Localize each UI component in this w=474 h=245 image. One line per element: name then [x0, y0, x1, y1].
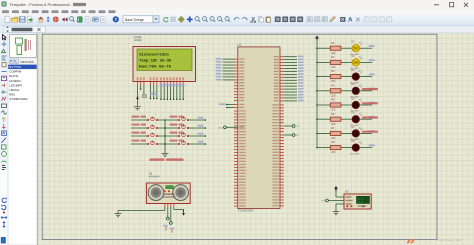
net label row 1 [369, 45, 375, 47]
svg-text:STC89C52RC: STC89C52RC [238, 210, 254, 213]
resistor R2 [330, 60, 341, 64]
wire button row 1 left [131, 119, 148, 121]
wire U2 Gnd right [173, 207, 175, 210]
button label right red row 1 [170, 116, 178, 118]
wire R4 to D4 [341, 90, 352, 92]
wire D7 out [360, 132, 373, 134]
wire bus to R5 [317, 104, 330, 106]
left tool strip [0, 33, 8, 245]
MCU left pins P0 wires [234, 58, 238, 60]
wires RS RW E [150, 85, 152, 99]
net label row 7 [369, 130, 375, 132]
wire D5 out [360, 104, 373, 106]
left object selector panel [8, 33, 37, 245]
title bar [0, 0, 474, 9]
svg-text:HCSR04: HCSR04 [9, 79, 21, 83]
junction row 3 [316, 76, 318, 78]
junction row 2 [316, 62, 318, 64]
junction row 6 [316, 118, 318, 120]
svg-text:CSDN @qq_5027: CSDN @qq_5027 [438, 238, 463, 242]
LED D5 [352, 101, 359, 108]
wire button row 3 to bus [157, 135, 179, 137]
svg-text:Hum:70% 65-75: Hum:70% 65-75 [139, 66, 172, 70]
MCU left stub pins lower [234, 110, 238, 112]
svg-text:DHT11: DHT11 [9, 74, 18, 78]
LED arrows D8 [359, 141, 363, 144]
svg-text:distance=18cm: distance=18cm [139, 52, 169, 57]
net label right row 4 [198, 141, 204, 143]
net label right row 2 [198, 125, 204, 127]
MCU pin names [239, 58, 244, 59]
svg-text:220: 220 [331, 66, 336, 69]
svg-text:LED-BIRY: LED-BIRY [350, 153, 360, 155]
junction row 1 [316, 47, 318, 49]
svg-text:R1: R1 [331, 41, 335, 45]
button label left red row 3 [132, 132, 140, 134]
svg-text:88.8: 88.8 [358, 200, 364, 203]
LED arrows D6 [359, 113, 363, 116]
button K8 [178, 143, 180, 145]
wire bus to R8 [317, 147, 330, 149]
preview window [10, 35, 37, 58]
LED arrows D3 [359, 70, 363, 73]
button K1 [147, 119, 149, 121]
net label row 2 [369, 59, 375, 61]
LED D7 [352, 130, 359, 137]
net label row 5 [369, 102, 375, 104]
wire bus to R6 [317, 118, 330, 120]
P L buttons and DEVICES header [8, 58, 37, 64]
wire RXD to U1 [226, 126, 238, 128]
MCU left wires RST group [234, 104, 238, 106]
U2 leds [164, 190, 166, 192]
wire DHT11 VDD [336, 196, 344, 198]
tool strip icons [3, 35, 7, 41]
wire R6 to D6 [341, 118, 352, 120]
wire DHT11 GND [336, 203, 344, 205]
LED D8 [352, 144, 359, 151]
wire R1 to D1 [341, 47, 352, 49]
wire button row 3 right [188, 135, 205, 137]
svg-text:BUTTON: BUTTON [9, 65, 21, 69]
button K2 [147, 127, 149, 129]
svg-text:R5: R5 [331, 98, 335, 102]
LED arrows D4 [359, 84, 363, 87]
wires D0-D7 [160, 85, 162, 99]
wire VEE [143, 85, 145, 95]
wire bus to R3 [317, 76, 330, 78]
terminal DATA [326, 199, 329, 202]
window buttons [434, 4, 439, 6]
DHT11 U3 body [344, 194, 371, 209]
LED D2 [352, 59, 359, 66]
wire bus to R2 [317, 61, 330, 63]
wire button row 4 left [131, 143, 148, 145]
net labels right [298, 56, 304, 58]
svg-text:R3: R3 [331, 69, 335, 73]
U2 right transducer [173, 185, 189, 201]
annotation red row 6 [362, 116, 378, 118]
annotation red row 7 [362, 131, 378, 133]
wire D3 out [360, 76, 373, 78]
net label right row 3 [198, 133, 204, 135]
net label right row 1 [198, 117, 204, 119]
ground under LCD [137, 101, 139, 105]
wire DHT11 DATA [328, 200, 344, 202]
button label left red row 2 [132, 124, 140, 126]
button label left red row 4 [132, 140, 140, 142]
svg-text:DEVICES: DEVICES [21, 60, 34, 64]
annotation red row 4 [362, 88, 378, 90]
svg-text:COMPIM: COMPIM [9, 70, 21, 74]
wire button row 4 right [188, 143, 205, 145]
svg-text:LM041L: LM041L [9, 88, 20, 92]
power +5V DHT11 [335, 188, 337, 192]
svg-text:Temp:18C 25-35: Temp:18C 25-35 [139, 59, 172, 63]
U2 left transducer [148, 185, 164, 201]
button K5 [178, 119, 180, 121]
wire U2 Trig down [167, 207, 169, 217]
junction row 4 [316, 90, 318, 92]
MCU right pin wires P1 P2 [280, 56, 284, 58]
junction row 5 [316, 104, 318, 106]
power arrow U2 right [182, 213, 185, 216]
resistor R5 [330, 103, 341, 107]
toolbar icon group right [164, 17, 168, 22]
svg-text:LED-BIRY: LED-BIRY [9, 83, 22, 87]
svg-text:TXD: TXD [296, 126, 301, 128]
DHT11 display [357, 196, 370, 203]
LCD LCD1 body [133, 47, 196, 82]
net label row 4 [369, 88, 375, 90]
wire R8 to D8 [341, 147, 352, 149]
button label right red row 4 [170, 140, 178, 142]
terminal Trig [166, 217, 169, 220]
caption 独立按键 [150, 158, 165, 161]
LED arrows D1 [359, 42, 363, 45]
svg-text:R2: R2 [331, 55, 335, 59]
button common bus [164, 120, 166, 151]
wire button row 4 to bus [157, 143, 179, 145]
wire button row 1 right [188, 119, 205, 121]
annotation red row 5 [362, 102, 378, 104]
button label right red row 2 [170, 124, 178, 126]
svg-text:STC89C52RC: STC89C52RC [9, 97, 27, 101]
button label left red row 1 [132, 116, 140, 118]
wire VSS to ground [137, 85, 139, 97]
tab bar [0, 26, 474, 33]
svg-text:U2: U2 [149, 172, 153, 176]
svg-text:220: 220 [331, 137, 336, 140]
DHT11 pin names [346, 196, 352, 198]
junction row 8 [316, 147, 318, 149]
svg-text:220: 220 [331, 109, 336, 112]
svg-text:Base Design: Base Design [125, 18, 144, 22]
wire D4 out [360, 90, 373, 92]
wire R2 to D2 [341, 61, 352, 63]
svg-text:U1: U1 [238, 42, 242, 46]
terminal INT [280, 134, 284, 136]
toolbar icon group left [5, 16, 10, 22]
LED D1 [352, 45, 359, 52]
menu bar [0, 9, 474, 15]
resistor R1 [330, 46, 341, 50]
svg-text:220: 220 [331, 123, 336, 126]
LED arrows D5 [359, 98, 363, 101]
net label row 6 [369, 116, 375, 118]
LED supply bus [316, 41, 318, 148]
terminal Echo [169, 222, 172, 225]
svg-text:RES: RES [9, 92, 15, 96]
svg-text:220: 220 [331, 52, 336, 55]
resistor R6 [330, 117, 341, 121]
ground under buttons [162, 151, 169, 157]
wire button row 2 to bus [157, 127, 179, 129]
LED arrows D7 [359, 127, 363, 130]
wire button row 2 left [131, 127, 148, 129]
DHT11 buttons [346, 205, 348, 207]
power down arrow [137, 96, 139, 98]
LED arrows D2 [359, 56, 363, 59]
ground left of U2 [115, 211, 122, 217]
svg-text:U3: U3 [345, 189, 349, 193]
ground DHT11 [333, 209, 340, 215]
svg-text:R4: R4 [331, 83, 335, 87]
wire D8 out [360, 147, 373, 149]
net labels left P0 [216, 58, 222, 60]
svg-text:R7: R7 [331, 126, 335, 130]
toolbar [0, 15, 474, 26]
junction row 7 [316, 133, 318, 135]
U2 crystal [166, 186, 174, 189]
wire button row 2 right [188, 127, 205, 129]
svg-text:LCD1: LCD1 [134, 35, 142, 39]
wire R7 to D7 [341, 132, 352, 134]
MCU U1 body [238, 47, 280, 209]
resistor R7 [330, 131, 341, 135]
wire R3 to D3 [341, 76, 352, 78]
svg-text:220: 220 [331, 94, 336, 97]
MCU right stub pins lower [280, 104, 284, 106]
button K4 [147, 143, 149, 145]
resistor R4 [330, 89, 341, 93]
schematic canvas with grid [38, 33, 474, 245]
LED D3 [352, 73, 359, 80]
MCU left stub pins mid [234, 82, 238, 84]
watermark CSDN [407, 239, 415, 243]
wire button row 3 left [131, 135, 148, 137]
wire VDD [140, 85, 142, 89]
wire D6 out [360, 118, 373, 120]
devices list [8, 65, 36, 70]
net label row 8 [369, 144, 375, 146]
svg-text:?: ? [114, 17, 117, 22]
wire bus to R4 [317, 90, 330, 92]
button label right red row 3 [170, 132, 178, 134]
svg-text:220: 220 [331, 80, 336, 83]
wire bus to R7 [317, 132, 330, 134]
wire U2 Echo down [170, 207, 172, 222]
rotate mirror controls [2, 198, 6, 202]
svg-text:A: A [348, 18, 353, 24]
button K7 [178, 135, 180, 137]
resistor R3 [330, 75, 341, 79]
svg-text:R8: R8 [331, 140, 335, 144]
wire U2 Vcc to ground left [164, 207, 166, 210]
combo box Base Design [123, 16, 153, 23]
ultrasonic module U2 body [146, 183, 190, 204]
terminal TXD [280, 125, 284, 127]
U2 trig echo labels [163, 225, 168, 227]
wire button row 1 to bus [157, 119, 179, 121]
svg-text:RXD: RXD [218, 127, 223, 129]
net labels P00-P07 [160, 84, 163, 87]
power +5V terminal [316, 37, 318, 41]
wire D2 out [360, 61, 373, 63]
svg-text:Tempalte - Proteus 8 Professio: Tempalte - Proteus 8 Professional - [10, 2, 73, 7]
LED D6 [352, 116, 359, 123]
net label row 3 [369, 73, 375, 75]
sheet border [42, 34, 437, 239]
LED D4 [352, 87, 359, 94]
svg-text:220: 220 [331, 151, 336, 154]
U2 pins Vcc Trig Echo Gnd [164, 204, 166, 208]
wire bus to R1 [317, 47, 330, 49]
button K3 [147, 135, 149, 137]
wire R5 to D5 [341, 104, 352, 106]
LCD screen [137, 49, 192, 71]
svg-text:R6: R6 [331, 112, 335, 116]
svg-text:L: L [15, 60, 17, 64]
LCD pins 1-14 [137, 82, 139, 86]
wire D1 out [360, 47, 373, 49]
button K6 [178, 127, 180, 129]
resistor R8 [330, 146, 341, 150]
